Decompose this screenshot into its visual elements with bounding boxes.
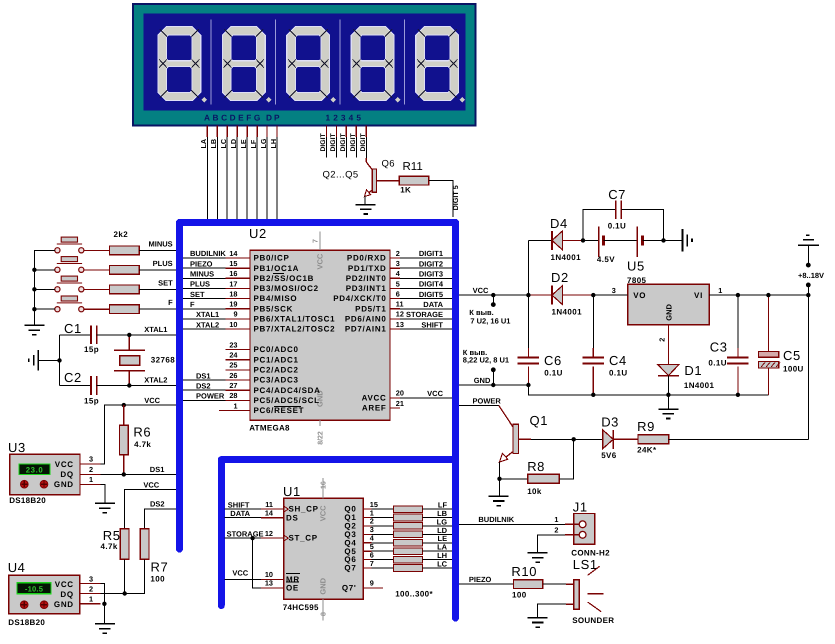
svg-text:SET: SET xyxy=(158,278,173,287)
junction rail xyxy=(32,287,36,291)
svg-text:0.1U: 0.1U xyxy=(544,369,563,378)
wire segment net LH from display pin to bus xyxy=(276,126,278,220)
wire net DS2 from bus to R7 xyxy=(145,509,176,529)
resistor segment driver R (Q1) xyxy=(394,514,423,521)
wire net BUDILNIK from bus to U2 xyxy=(183,257,225,259)
junction base/R8 xyxy=(572,437,576,441)
svg-text:0.1U: 0.1U xyxy=(708,359,727,368)
U1 pin 2 Q2 xyxy=(344,517,373,531)
wire Q0 to resistor xyxy=(371,508,393,510)
svg-text:12345: 12345 xyxy=(326,113,365,123)
svg-text:ABCDEFG: ABCDEFG xyxy=(204,113,263,123)
svg-text:DS18B20: DS18B20 xyxy=(9,496,46,505)
wire emitter junction to ground xyxy=(499,479,501,496)
svg-text:2: 2 xyxy=(396,249,400,258)
svg-text:U3: U3 xyxy=(8,440,26,455)
connector J1 CONN-H2 xyxy=(574,514,595,545)
wire segment net LE from display pin to bus xyxy=(246,126,248,220)
svg-text:26: 26 xyxy=(229,371,237,380)
svg-text:1: 1 xyxy=(233,401,237,410)
svg-text:13: 13 xyxy=(265,579,273,588)
U2 pin 18 PB4/MISO xyxy=(225,289,297,303)
svg-text:GND: GND xyxy=(54,600,74,609)
bus wire main loop around U2 xyxy=(180,223,456,619)
svg-text:1N4001: 1N4001 xyxy=(551,253,582,262)
wire segment net LG from display pin to bus xyxy=(266,126,268,220)
svg-text:1: 1 xyxy=(89,475,93,484)
wire net POWER bus to Q1 xyxy=(459,405,499,407)
svg-text:PC3/ADC3: PC3/ADC3 xyxy=(254,376,299,385)
svg-text:PB4/MISO: PB4/MISO xyxy=(254,294,298,303)
wire net SET from bus to U2 xyxy=(183,298,225,300)
U2 pin 3 PD1/TXD xyxy=(348,259,400,273)
U2 pin 13 PD7/AIN1 xyxy=(345,320,404,334)
diode D1 1N4001 xyxy=(658,365,679,376)
crystal X1 32768 xyxy=(114,335,145,386)
wire R9 to input rail xyxy=(669,438,809,440)
svg-text:VCC: VCC xyxy=(232,569,248,578)
wire net POWER from bus to U2 xyxy=(183,399,225,401)
wire net DIGIT4 from U2 to bus xyxy=(400,287,452,289)
J1 pin 1 xyxy=(565,523,579,525)
svg-text:9: 9 xyxy=(233,310,237,319)
svg-text:R8: R8 xyxy=(527,459,545,474)
svg-text:BUDILNIK: BUDILNIK xyxy=(478,515,514,524)
ground (U3) xyxy=(95,502,115,504)
junction C3 rail xyxy=(736,393,740,397)
svg-text:LE: LE xyxy=(239,139,248,148)
U2 pin 5 PD3/INT1 xyxy=(346,279,400,293)
svg-text:PB6/XTAL1/TOSC1: PB6/XTAL1/TOSC1 xyxy=(254,315,336,324)
wire net DIGIT4 from display digit pin xyxy=(355,126,357,158)
svg-text:12: 12 xyxy=(265,529,273,538)
svg-text:DIGIT: DIGIT xyxy=(340,133,347,152)
svg-text:R11: R11 xyxy=(403,161,423,173)
svg-text:4.7k: 4.7k xyxy=(101,542,118,551)
svg-text:LC: LC xyxy=(437,559,448,568)
wire Q4 to resistor xyxy=(371,542,393,544)
wire net PLUS from bus to U2 xyxy=(183,287,225,289)
svg-text:PC4/ADC4/SDA: PC4/ADC4/SDA xyxy=(254,386,321,395)
svg-text:DIGIT5: DIGIT5 xyxy=(419,290,443,299)
svg-text:Q1: Q1 xyxy=(530,413,549,428)
ground (battery, rotated right) xyxy=(683,229,693,251)
terminal GND note stub xyxy=(491,367,496,372)
wire resistor to bus net LH xyxy=(423,559,452,561)
svg-text:DIGIT: DIGIT xyxy=(330,133,337,152)
wire resistor to bus net F xyxy=(139,308,176,310)
wire button to resistor row F xyxy=(84,308,110,310)
U3 pin 1 GND xyxy=(80,483,101,485)
overline SS of U2 pin16 xyxy=(273,273,284,275)
svg-text:15p: 15p xyxy=(84,345,99,354)
svg-text:R7: R7 xyxy=(151,560,169,575)
overline RESET of U2 pin1 xyxy=(274,406,301,408)
svg-text:3: 3 xyxy=(612,286,616,295)
display DISP1 5-digit 7-segment module xyxy=(133,4,475,126)
svg-text:100U: 100U xyxy=(783,364,804,373)
diode D2 1N4001 xyxy=(528,286,593,305)
junction C7 right xyxy=(661,238,665,242)
wire net XTAL2 from bus to U2 xyxy=(183,328,225,330)
svg-text:XTAL2: XTAL2 xyxy=(144,376,167,385)
svg-text:VCC: VCC xyxy=(427,389,443,398)
wire net DIGIT1 from U2 to bus xyxy=(400,257,452,259)
switch button F xyxy=(55,296,84,312)
svg-text:AREF: AREF xyxy=(362,404,387,413)
junction emitter/R8 xyxy=(497,477,501,481)
svg-text:C1: C1 xyxy=(64,321,82,336)
wire rail to button F xyxy=(34,308,54,310)
svg-text:PB2/SS/OC1B: PB2/SS/OC1B xyxy=(254,274,315,283)
overline OE xyxy=(286,581,299,583)
wire net STORAGE bus to U1 xyxy=(225,537,261,539)
svg-text:PLUS: PLUS xyxy=(190,280,210,289)
svg-text:LB: LB xyxy=(209,139,218,149)
capacitor C6 xyxy=(518,295,540,385)
svg-text:15: 15 xyxy=(229,259,237,268)
svg-text:PD2/INT0: PD2/INT0 xyxy=(346,274,387,283)
capacitor C4 xyxy=(583,295,605,395)
svg-text:POWER: POWER xyxy=(196,392,225,401)
resistor segment driver R (Q4) xyxy=(394,539,423,546)
junction U4 GND xyxy=(102,602,106,606)
svg-text:D1: D1 xyxy=(684,363,702,378)
wire resistor to bus net LG xyxy=(423,525,452,527)
svg-text:D2: D2 xyxy=(551,270,569,285)
U2 pin 14 PB0/ICP xyxy=(225,249,289,263)
svg-text:PD5/T1: PD5/T1 xyxy=(355,304,386,313)
wire segment net LB from display pin to bus xyxy=(216,126,218,220)
U2 pin 6 PD4/XCK/T0 xyxy=(333,289,400,303)
resistor segment driver R (Q0) xyxy=(394,506,423,513)
wire net DIGIT2 from U2 to bus xyxy=(400,267,452,269)
svg-text:VCC: VCC xyxy=(55,460,74,469)
svg-text:12: 12 xyxy=(396,310,404,319)
U2 pin 7 VCC hidden stub xyxy=(319,232,321,251)
junction rail xyxy=(32,268,36,272)
wire R11 to bus (net DIGIT5) xyxy=(429,181,453,217)
wire U3 DQ to bus net DS1 xyxy=(101,473,176,475)
svg-text:VCC: VCC xyxy=(55,580,74,589)
svg-text:100: 100 xyxy=(512,591,527,600)
U2 pin 20 AVCC xyxy=(362,389,404,403)
resistor R10 xyxy=(514,580,543,589)
U1 pin 4 Q4 xyxy=(344,534,374,548)
svg-text:DS2: DS2 xyxy=(150,499,165,508)
svg-text:C2: C2 xyxy=(64,370,82,385)
junction DQ2 R5 xyxy=(123,591,127,595)
svg-text:SET: SET xyxy=(190,290,205,299)
svg-text:U4: U4 xyxy=(8,560,26,575)
wire segment net LF from display pin to bus xyxy=(256,126,258,220)
wire net VCC bus to U1 MR xyxy=(225,578,261,580)
svg-text:16: 16 xyxy=(229,269,237,278)
resistor R11 xyxy=(399,176,429,185)
temperature sensor U4 DS18B20 xyxy=(9,575,80,614)
svg-text:К выв.: К выв. xyxy=(469,308,493,317)
svg-text:2: 2 xyxy=(89,465,93,474)
U2 pin 21 AREF xyxy=(362,399,404,413)
switch button MINUS xyxy=(55,237,84,253)
U4 pin 1 GND xyxy=(80,603,101,605)
svg-text:DP: DP xyxy=(266,113,282,123)
U2 pin 2 PD0/RXD xyxy=(347,249,400,263)
ground (crystal, rotated left) xyxy=(29,350,39,370)
wire resistor to bus net MINUS xyxy=(139,249,176,251)
wire Q6 to resistor xyxy=(371,559,393,561)
svg-text:5V6: 5V6 xyxy=(601,451,617,460)
junction GND/C6 xyxy=(526,383,530,387)
junction C1C2 rail xyxy=(57,358,61,362)
U2 pin 17 PB3/MOSI/OC2 xyxy=(225,279,319,293)
svg-text:D4: D4 xyxy=(550,216,568,231)
svg-text:U5: U5 xyxy=(627,259,645,274)
junction C3 top xyxy=(736,293,740,297)
svg-text:LA: LA xyxy=(199,139,208,149)
junction C4 rail xyxy=(591,393,595,397)
junction D1 rail xyxy=(666,393,670,397)
svg-text:100..300*: 100..300* xyxy=(395,589,433,598)
wire resistor to bus net LB xyxy=(423,517,452,519)
svg-text:74HC595: 74HC595 xyxy=(283,603,319,612)
ground (LS1) xyxy=(528,617,548,619)
wire net XTAL2 to bus xyxy=(129,385,176,387)
svg-text:10: 10 xyxy=(229,320,237,329)
svg-text:Q7': Q7' xyxy=(342,584,357,593)
svg-text:LD: LD xyxy=(229,139,238,149)
U1 pin 12 ST_CP xyxy=(261,529,318,543)
svg-text:0.1U: 0.1U xyxy=(609,369,628,378)
svg-text:-10.5: -10.5 xyxy=(25,585,44,594)
wire rail to button MINUS xyxy=(34,249,54,251)
junction DS1 R6 xyxy=(122,472,126,476)
transistor Q1 (PNP power switch) xyxy=(499,406,531,463)
svg-text:LG: LG xyxy=(259,138,268,148)
svg-text:LF: LF xyxy=(249,139,258,148)
svg-text:25: 25 xyxy=(229,361,237,370)
U5 pin 3 wire from D2 xyxy=(593,294,627,296)
svg-text:10k: 10k xyxy=(527,487,542,496)
wire Q3 to resistor xyxy=(371,533,393,535)
svg-text:14: 14 xyxy=(229,249,238,258)
wire Q7 to resistor xyxy=(371,567,393,569)
U2 pin 1 PC6/RESET xyxy=(219,401,304,415)
wire net MINUS from bus to U2 xyxy=(183,277,225,279)
svg-text:DATA: DATA xyxy=(230,509,250,518)
wire net DIGIT3 from U2 to bus xyxy=(400,277,452,279)
battery BT1 4.5V xyxy=(583,227,664,257)
svg-text:C7: C7 xyxy=(608,187,626,202)
ground (Q6 emitter) xyxy=(356,204,376,206)
svg-text:GND: GND xyxy=(54,480,74,489)
svg-text:DQ: DQ xyxy=(60,590,73,599)
U1 pin 11 SH_CP xyxy=(261,500,319,514)
svg-text:DATA: DATA xyxy=(423,300,443,309)
wire STORAGE tap down to OE pin xyxy=(253,538,261,588)
svg-text:13: 13 xyxy=(396,320,404,329)
svg-text:PIEZO: PIEZO xyxy=(190,259,213,268)
svg-text:4.5V: 4.5V xyxy=(597,255,615,264)
wire R5 bottom to DQ net xyxy=(124,559,126,593)
wire R10 to LS1 xyxy=(543,583,566,585)
svg-text:7: 7 xyxy=(313,239,320,243)
U1 pin 3 Q3 xyxy=(344,525,373,539)
U2 pin 11 PD5/T1 xyxy=(355,300,403,314)
svg-text:VCC: VCC xyxy=(473,286,489,295)
wire Q5 to resistor xyxy=(371,550,393,552)
svg-text:VCC: VCC xyxy=(144,396,160,405)
power terminal +8..18V xyxy=(798,235,819,267)
svg-text:19: 19 xyxy=(229,300,237,309)
wire net STORAGE from U2 to bus xyxy=(400,318,452,320)
wire R7 bottom to U4 DQ xyxy=(101,559,145,593)
U5 pin 1 wire to input xyxy=(709,294,808,296)
svg-text:PC6/RESET: PC6/RESET xyxy=(254,406,305,415)
svg-text:21: 21 xyxy=(396,399,404,408)
U2 pin 4 PD2/INT0 xyxy=(346,269,401,283)
wire resistor to bus net LD xyxy=(423,533,452,535)
svg-text:7 U2, 16 U1: 7 U2, 16 U1 xyxy=(470,317,510,326)
svg-text:7805: 7805 xyxy=(627,276,647,285)
resistor segment driver R (Q6) xyxy=(394,556,423,563)
svg-text:100: 100 xyxy=(150,575,165,584)
resistor R8 xyxy=(500,439,574,483)
svg-text:2: 2 xyxy=(89,584,93,593)
svg-text:9: 9 xyxy=(370,579,374,588)
svg-text:C3: C3 xyxy=(710,340,728,355)
junction XTAL2 xyxy=(127,383,131,387)
wire net BUDILNIK bus to J1 xyxy=(459,523,565,525)
junction C5 top xyxy=(766,293,770,297)
wire net PIEZO bus to R10 xyxy=(459,583,514,585)
svg-text:OE: OE xyxy=(286,584,299,593)
wire Q1 base to D3 xyxy=(531,438,603,440)
wire net VCC from U2 AVCC to bus xyxy=(400,397,452,399)
svg-text:2: 2 xyxy=(658,338,667,342)
wire net DIGIT1 from display digit pin xyxy=(325,126,327,158)
wire net DIGIT3 from display digit pin xyxy=(345,126,347,158)
svg-text:DS1: DS1 xyxy=(196,371,211,380)
U2 pin 25 PC2/ADC2 xyxy=(225,361,298,375)
svg-text:CONN-H2: CONN-H2 xyxy=(571,548,610,557)
svg-text:DIGIT4: DIGIT4 xyxy=(419,280,444,289)
U1 pin 8 GND hidden stub xyxy=(322,599,324,620)
svg-text:Q7: Q7 xyxy=(344,564,356,573)
svg-text:AVCC: AVCC xyxy=(362,394,387,403)
svg-text:J1: J1 xyxy=(573,499,588,514)
U2 pin 12 PD6/AIN0 xyxy=(345,310,404,324)
junction VCC R6 tap xyxy=(122,403,126,407)
U1 pin 16 VCC hidden stub xyxy=(322,478,324,498)
svg-text:DS2: DS2 xyxy=(196,381,211,390)
wire net GND bus to C6 xyxy=(459,384,528,386)
wire LS1 pin2 to ground xyxy=(566,603,574,605)
svg-text:PB1/OC1A: PB1/OC1A xyxy=(254,264,300,273)
svg-text:Q6: Q6 xyxy=(382,159,395,170)
wire button to resistor row PLUS xyxy=(84,269,110,271)
wire net DS1 from bus to U2 xyxy=(183,379,225,381)
svg-text:PD7/AIN1: PD7/AIN1 xyxy=(345,325,387,334)
temperature sensor U3 DS18B20 xyxy=(10,454,80,494)
U4 pin 2 DQ xyxy=(80,593,101,595)
wire net SHIFT bus to U1 xyxy=(225,508,261,510)
capacitor C2 xyxy=(60,376,130,395)
svg-text:D3: D3 xyxy=(601,414,619,429)
switch button SET xyxy=(55,276,84,292)
svg-text:24: 24 xyxy=(229,351,238,360)
wire button to resistor row SET xyxy=(84,288,110,290)
U1 pin 13 OE xyxy=(261,579,299,593)
svg-text:XTAL1: XTAL1 xyxy=(196,310,219,319)
svg-text:3: 3 xyxy=(89,574,93,583)
junction XTAL1 xyxy=(127,333,131,337)
U3 pin 2 DQ xyxy=(80,473,101,475)
svg-text:4.7k: 4.7k xyxy=(134,440,151,449)
svg-text:R5: R5 xyxy=(103,528,121,543)
U1 pin 9 Q7' xyxy=(342,579,383,593)
svg-text:17: 17 xyxy=(229,279,237,288)
overline MR xyxy=(286,572,300,574)
svg-text:23: 23 xyxy=(229,340,237,349)
junction C7 left xyxy=(581,238,585,242)
svg-text:18: 18 xyxy=(229,289,237,298)
svg-text:PD0/RXD: PD0/RXD xyxy=(347,254,387,263)
ground (Q1) xyxy=(489,495,509,497)
svg-text:PC1/ADC1: PC1/ADC1 xyxy=(254,355,299,364)
resistor R9 xyxy=(638,435,669,444)
svg-text:PC0/ADC0: PC0/ADC0 xyxy=(254,345,299,354)
svg-text:GND: GND xyxy=(665,303,674,320)
svg-text:STORAGE: STORAGE xyxy=(227,529,264,538)
junction VCC/D2 left xyxy=(526,293,530,297)
U2 pin 8/22 GND hidden stub xyxy=(319,420,321,426)
svg-text:PB0/ICP: PB0/ICP xyxy=(254,254,290,263)
svg-text:SOUNDER: SOUNDER xyxy=(572,616,614,625)
ground (J1) xyxy=(528,552,548,554)
U3 pin 3 VCC xyxy=(80,463,101,465)
svg-text:STORAGE: STORAGE xyxy=(406,310,443,319)
junction STORAGE/OE xyxy=(250,536,254,540)
wire net VCC bus to D2 xyxy=(459,294,528,296)
svg-text:VCC: VCC xyxy=(319,505,328,521)
svg-text:VCC: VCC xyxy=(143,480,159,489)
svg-text:1N4001: 1N4001 xyxy=(552,308,583,317)
U1 pin 1 Q1 xyxy=(344,508,373,522)
svg-text:2: 2 xyxy=(554,525,558,534)
svg-text:28: 28 xyxy=(229,391,237,400)
wire segment net LD from display pin to bus xyxy=(236,126,238,220)
capacitor C7 xyxy=(583,200,664,240)
svg-text:PD1/TXD: PD1/TXD xyxy=(348,264,387,273)
svg-text:PB5/SCK: PB5/SCK xyxy=(254,304,294,313)
svg-text:DS: DS xyxy=(286,513,299,522)
U2 pin 10 PB7/XTAL2/TOSC2 xyxy=(225,320,335,334)
svg-text:C5: C5 xyxy=(783,348,801,363)
svg-text:DQ: DQ xyxy=(60,470,73,479)
J1 pin 2 xyxy=(565,534,579,536)
svg-text:PLUS: PLUS xyxy=(153,259,173,268)
wire segment net LA from display pin to bus xyxy=(206,126,208,220)
wire Q1 emitter down xyxy=(499,462,501,479)
svg-text:MINUS: MINUS xyxy=(149,239,173,248)
svg-text:PIEZO: PIEZO xyxy=(469,575,492,584)
svg-text:DIGIT: DIGIT xyxy=(320,133,327,152)
wire net DIGIT5 from display digit pin xyxy=(365,126,367,163)
svg-text:DIGIT: DIGIT xyxy=(350,133,357,152)
U2 pin 24 PC1/ADC1 xyxy=(225,351,298,365)
svg-text:DIGIT1: DIGIT1 xyxy=(419,249,443,258)
